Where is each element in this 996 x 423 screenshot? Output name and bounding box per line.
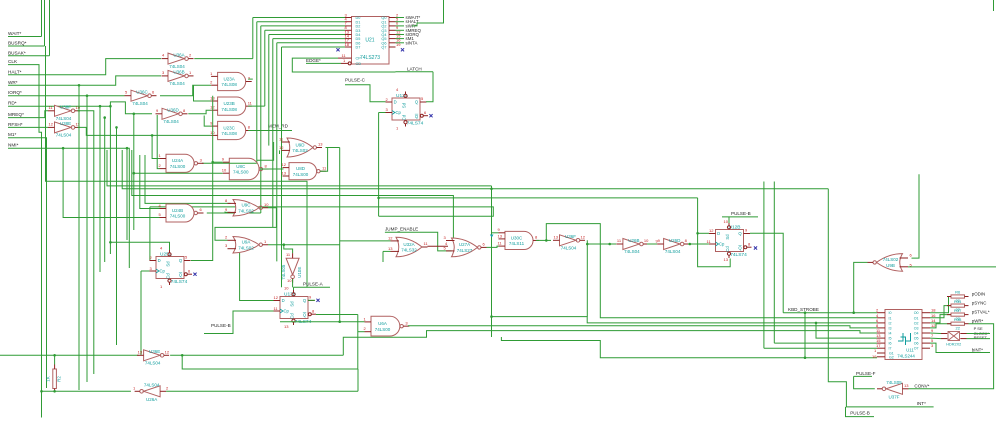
U11 pin A7 [877, 347, 885, 349]
svg-text:R38: R38 [954, 317, 962, 322]
U21 pin 1 CLR [348, 62, 351, 65]
U21 pin D7 [345, 46, 352, 48]
svg-text:Sd: Sd [166, 261, 171, 267]
svg-text:JUMP_ENABLE: JUMP_ENABLE [385, 227, 418, 232]
U21 pin D0 [345, 17, 352, 19]
wire KBD_STROBE [783, 312, 877, 314]
svg-text:EDGE*: EDGE* [306, 58, 321, 63]
svg-text:O1: O1 [914, 316, 919, 320]
svg-text:O2: O2 [914, 321, 919, 325]
wire JUMP_ENABLE [385, 232, 452, 251]
wire [698, 232, 709, 234]
wire vertical x87 [86, 96, 88, 382]
svg-text:74LS74: 74LS74 [407, 121, 424, 127]
NOR gate U9A [233, 237, 259, 254]
wire [764, 347, 877, 349]
inverter U37F [886, 383, 903, 394]
svg-text:74LS04: 74LS04 [163, 119, 179, 124]
wire [408, 326, 877, 328]
no-connect D7 [336, 48, 339, 51]
wire vertical x110 [109, 106, 111, 254]
svg-text:74LS32: 74LS32 [401, 248, 417, 253]
wire [240, 253, 274, 301]
U21 pin D2 [345, 25, 352, 27]
wire [213, 161, 223, 163]
svg-text:74LS04: 74LS04 [145, 361, 161, 366]
svg-text:O5: O5 [914, 337, 919, 341]
wire MEM_RD [248, 130, 292, 132]
U21 pin D6 [345, 42, 352, 44]
svg-text:12: 12 [49, 121, 54, 126]
wire [134, 172, 223, 174]
svg-text:74LS02: 74LS02 [238, 208, 254, 213]
svg-text:10: 10 [222, 168, 227, 173]
AND gate U23C [218, 121, 246, 139]
jumper J1 [948, 332, 960, 341]
wire [340, 240, 391, 242]
svg-text:74LS244: 74LS244 [897, 354, 915, 359]
wire [339, 148, 341, 322]
wire [698, 198, 731, 267]
U11 pin A0 [877, 312, 885, 314]
NOR gate U9C [233, 200, 259, 217]
U21 pin D3 [345, 29, 352, 31]
wire [152, 135, 159, 158]
AND gate U23B [218, 97, 246, 115]
svg-text:U26A: U26A [146, 397, 157, 402]
svg-text:Cd: Cd [166, 273, 171, 279]
wire Q2 [396, 25, 405, 27]
wire bus B [122, 150, 828, 189]
svg-text:74LS08: 74LS08 [221, 107, 237, 112]
U11 schmitt symbol [898, 333, 911, 345]
U13B Qbar pin 8 [308, 313, 311, 316]
U12B Qbar pin 8 [744, 246, 747, 249]
wire [930, 306, 951, 318]
wire BUSRQ* [8, 45, 45, 47]
svg-text:D: D [158, 258, 161, 263]
svg-text:U10E: U10E [297, 267, 302, 278]
svg-text:74LS00: 74LS00 [293, 172, 309, 177]
U21 pin D1 [345, 21, 352, 23]
svg-text:WAIT*: WAIT* [8, 31, 22, 36]
svg-text:U23B: U23B [223, 101, 234, 106]
wire [280, 321, 365, 323]
resistor R6 [951, 295, 965, 298]
NOR gate U9B [877, 254, 903, 272]
svg-text:Q2: Q2 [381, 25, 386, 29]
wire NMI* run [8, 148, 129, 268]
wire vertical x774 [773, 182, 775, 344]
svg-text:18: 18 [345, 42, 350, 47]
svg-text:U21: U21 [365, 38, 374, 44]
wire [316, 314, 358, 316]
svg-text:MREQ*: MREQ* [8, 112, 24, 117]
svg-text:74LS04: 74LS04 [169, 64, 185, 69]
svg-text:O6: O6 [914, 342, 919, 346]
wire [49, 0, 51, 56]
U21 pin D4 [345, 34, 352, 36]
svg-text:U9C: U9C [241, 203, 251, 208]
wire [412, 0, 444, 26]
wire [157, 115, 159, 169]
wire to U24B in2 [63, 148, 159, 217]
wire [141, 270, 150, 272]
wire [383, 250, 391, 252]
svg-text:74LS02: 74LS02 [292, 148, 308, 153]
U21 pin Q5 [389, 38, 396, 40]
U11 pin Y3 [922, 327, 930, 329]
svg-text:1K: 1K [46, 376, 51, 381]
svg-text:Cp: Cp [396, 110, 402, 115]
wire [170, 354, 343, 356]
svg-text:74LS05: 74LS05 [886, 380, 902, 385]
wire U23A out [248, 78, 253, 80]
wire [54, 355, 56, 364]
svg-text:LATCH: LATCH [407, 66, 422, 71]
svg-text:74LS05: 74LS05 [281, 264, 286, 280]
svg-text:I7: I7 [889, 347, 892, 351]
wire [166, 390, 358, 392]
wire [492, 232, 499, 234]
wire [268, 245, 293, 254]
svg-text:13: 13 [724, 257, 729, 262]
svg-text:O4: O4 [914, 332, 919, 336]
wire [774, 342, 877, 344]
svg-text:12: 12 [581, 234, 586, 239]
wire U25A Cp riser [140, 271, 142, 355]
svg-text:74LS04: 74LS04 [132, 101, 148, 106]
wire RD* to U36D [8, 102, 152, 114]
wire [308, 299, 315, 301]
svg-text:BUSAK*: BUSAK* [8, 50, 26, 55]
wire [215, 208, 276, 241]
svg-text:Cp: Cp [160, 269, 166, 274]
U11 pin Y6 [922, 342, 930, 344]
svg-text:U36A: U36A [173, 52, 184, 57]
svg-text:D: D [282, 298, 285, 303]
svg-text:PULSE-B: PULSE-B [731, 211, 751, 216]
wire Q1 [396, 21, 405, 23]
inverter U26B [623, 239, 640, 250]
wire [728, 217, 730, 223]
wire [0, 354, 139, 356]
svg-text:U36C: U36C [136, 90, 148, 95]
svg-text:74LS00: 74LS00 [233, 170, 249, 175]
U11 pin A3 [877, 327, 885, 329]
svg-text:BUSRQ*: BUSRQ* [8, 41, 27, 46]
wire [804, 313, 806, 358]
wire U21 D7 feed [282, 46, 346, 48]
wire [41, 0, 43, 37]
wire U36D out to U23B [188, 110, 211, 114]
svg-text:NMI*: NMI* [8, 143, 19, 148]
svg-text:Cp: Cp [719, 242, 725, 247]
wire U12A cp riser [378, 113, 380, 217]
svg-text:U23A: U23A [223, 76, 234, 81]
svg-text:U36E: U36E [149, 349, 160, 354]
wire [816, 323, 877, 338]
svg-text:I0: I0 [889, 311, 892, 315]
AND gate U30C [505, 231, 533, 249]
resistor R38 [951, 322, 965, 325]
svg-text:KBD_STROBE: KBD_STROBE [788, 307, 819, 312]
U11 pin Y5 [922, 337, 930, 339]
svg-text:74LS08: 74LS08 [221, 82, 237, 87]
wire [586, 244, 588, 317]
wire U24B in1 feed [140, 155, 160, 209]
wire [828, 189, 933, 407]
wire [930, 337, 941, 340]
svg-text:Sd: Sd [402, 102, 407, 108]
svg-text:U8D: U8D [296, 166, 306, 171]
wire vertical x133 [133, 114, 135, 230]
svg-text:PULSE-B: PULSE-B [850, 411, 870, 416]
wire U21 D2 feed [261, 25, 345, 27]
wire U21 D3 feed [265, 29, 345, 31]
wire [292, 279, 294, 287]
wire U21 D1 feed [257, 21, 345, 23]
svg-text:10: 10 [76, 105, 81, 110]
wire [912, 174, 920, 258]
wire Q6 [396, 42, 405, 44]
U11 pin A5 [877, 337, 885, 339]
wire [292, 252, 294, 254]
wire PULSE-B label2 [846, 407, 875, 417]
svg-text:10: 10 [287, 278, 292, 283]
IC U21 74LS273 [352, 17, 390, 65]
wire [42, 390, 131, 392]
resistor R37 [951, 313, 965, 316]
wire [993, 0, 995, 11]
svg-text:10: 10 [644, 238, 649, 243]
svg-text:I6: I6 [889, 342, 892, 346]
wire [343, 331, 877, 356]
wire [909, 388, 990, 390]
NOR gate U27A [452, 238, 478, 257]
U21 pin Q1 [389, 21, 396, 23]
wire LATCH [396, 71, 434, 73]
svg-text:R34: R34 [954, 299, 962, 304]
wire U21 D2 riser [260, 26, 262, 213]
svg-text:R2: R2 [57, 376, 62, 382]
wire [587, 240, 616, 244]
svg-text:HDR2X2: HDR2X2 [946, 342, 961, 346]
svg-text:D2: D2 [356, 25, 361, 29]
wire PULSE-B label [722, 216, 758, 218]
svg-text:pODIN: pODIN [972, 291, 985, 296]
wire PULSE-A [294, 286, 331, 288]
wire U6A in2 riser [357, 315, 359, 370]
wire U32A in2 riser [382, 251, 384, 262]
OR gate U32A [396, 237, 422, 257]
wire U21 D1 riser [256, 22, 258, 164]
svg-text:74LS04: 74LS04 [56, 133, 72, 138]
svg-text:Cp: Cp [284, 309, 290, 314]
svg-text:13: 13 [318, 142, 323, 147]
svg-text:13: 13 [282, 170, 287, 175]
inverter U38E [55, 122, 72, 133]
svg-text:U38E: U38E [60, 121, 71, 126]
svg-text:13: 13 [138, 349, 143, 354]
svg-text:PULSE-B: PULSE-B [211, 323, 231, 328]
wire [320, 148, 328, 172]
wire U38E out to U23C [78, 127, 212, 135]
svg-text:I1: I1 [889, 316, 892, 320]
inverter U26D [664, 239, 681, 250]
wire Q3 [396, 29, 405, 31]
wire U23B out [248, 105, 265, 107]
wire PULSE-F to U37F [854, 376, 875, 388]
svg-text:sINTA: sINTA [406, 40, 418, 45]
svg-text:R37: R37 [954, 308, 962, 313]
svg-text:CONV*: CONV* [914, 384, 929, 389]
U11 gate pins [877, 352, 885, 354]
wire RFSH* to U38E [8, 126, 48, 128]
U11 pin Y1 [922, 317, 930, 319]
inverter U38F [55, 105, 72, 116]
U21 pin Q7 [389, 46, 396, 48]
wire U21 D6 feed [277, 42, 345, 44]
U11 pin Y0 [922, 312, 930, 314]
U21 pin Q2 [389, 25, 396, 27]
svg-text:U24A: U24A [172, 158, 183, 163]
svg-text:13: 13 [388, 246, 393, 251]
inverter U26A [144, 386, 161, 397]
svg-text:U32A: U32A [403, 242, 414, 247]
svg-text:CD: CD [356, 62, 362, 66]
U11 pin Y7 [922, 347, 930, 349]
svg-text:13: 13 [554, 234, 559, 239]
U11 pin A1 [877, 317, 885, 319]
AND gate U23A [218, 72, 246, 90]
flip-flop U13B [280, 297, 308, 319]
inverter U36E [144, 350, 161, 361]
svg-text:U26D: U26D [669, 238, 681, 243]
svg-text:10: 10 [284, 286, 289, 291]
wire [279, 150, 281, 154]
svg-text:13: 13 [498, 233, 503, 238]
svg-text:10: 10 [264, 202, 269, 207]
wire PULSE-C to D [345, 85, 386, 102]
svg-text:bINT*: bINT* [972, 347, 984, 352]
wire U21 D4 riser [268, 35, 270, 146]
wire [326, 147, 340, 149]
svg-text:U27A: U27A [459, 242, 470, 247]
wire vertical x764 [763, 182, 765, 349]
wire Q5 [396, 38, 405, 40]
wire [647, 243, 657, 245]
wire [967, 333, 991, 335]
wire [260, 168, 283, 170]
svg-text:INT*: INT* [917, 401, 926, 406]
U21 pin Q6 [389, 42, 396, 44]
flip-flop U12B [716, 230, 744, 252]
svg-text:13: 13 [284, 324, 289, 329]
svg-text:U23C: U23C [223, 125, 235, 130]
wire [546, 224, 877, 318]
svg-text:I2: I2 [889, 321, 892, 325]
wire IORQ* to U36C [8, 95, 125, 97]
wire vertical x100 [99, 106, 101, 272]
svg-text:10: 10 [724, 219, 729, 224]
U11 pin A2 [877, 322, 885, 324]
svg-text:D7: D7 [356, 46, 361, 50]
svg-text:U30C: U30C [511, 235, 523, 240]
svg-text:74LS04: 74LS04 [144, 383, 160, 388]
svg-text:I3: I3 [889, 326, 892, 330]
svg-text:MEM_RD: MEM_RD [268, 123, 289, 128]
wire [918, 173, 920, 175]
wire vertical x116 [116, 127, 118, 345]
marker arrow [490, 235, 494, 238]
NAND gate U24A [166, 154, 194, 172]
U11 pin Y4 [922, 332, 930, 334]
wire [930, 324, 951, 328]
svg-text:13: 13 [904, 383, 909, 388]
wire WAIT* [8, 36, 42, 38]
svg-text:PULSE-A: PULSE-A [303, 282, 324, 287]
inverter U36A [168, 53, 185, 64]
wire U21 D0 feed [253, 17, 345, 19]
wire EDGE* [306, 62, 341, 64]
U25A Qbar pin 6 [184, 273, 187, 276]
wire U21 D7 riser [281, 47, 283, 287]
svg-text:22: 22 [955, 325, 960, 330]
inverter U36D [162, 108, 179, 119]
svg-text:74LS273: 74LS273 [360, 55, 380, 61]
svg-text:Cd: Cd [402, 114, 407, 120]
wire Q0 [396, 17, 405, 19]
svg-text:74LS04: 74LS04 [665, 249, 681, 254]
wire [292, 58, 395, 72]
svg-text:U37F: U37F [888, 395, 899, 400]
wire bus A [107, 150, 492, 186]
svg-text:U36D: U36D [167, 108, 179, 113]
wire pulse line to U12B [379, 197, 698, 199]
svg-text:U9D: U9D [295, 142, 305, 147]
svg-text:12: 12 [274, 295, 279, 300]
wire [930, 332, 941, 335]
svg-text:Sd: Sd [290, 301, 295, 307]
svg-text:12: 12 [282, 162, 287, 167]
svg-text:74LS00: 74LS00 [170, 164, 186, 169]
resistor R34 [951, 304, 965, 307]
svg-text:pWR*: pWR* [972, 319, 984, 324]
wire [908, 266, 996, 268]
wire bus C [132, 150, 454, 241]
svg-text:U36F: U36F [565, 234, 576, 239]
svg-text:74LS08: 74LS08 [221, 131, 237, 136]
wire U9C in2 feed2 [225, 211, 231, 214]
wire [358, 331, 365, 333]
svg-text:12: 12 [165, 349, 170, 354]
svg-text:M1*: M1* [8, 132, 17, 137]
svg-text:U38F: U38F [60, 105, 71, 110]
svg-text:74LS00: 74LS00 [375, 327, 391, 332]
wire [110, 242, 169, 250]
wire [426, 72, 433, 102]
svg-text:74LS74: 74LS74 [730, 252, 747, 258]
resistor R2 [53, 369, 57, 389]
svg-text:pSTVAL*: pSTVAL* [972, 310, 990, 315]
NAND gate U8D [289, 163, 317, 180]
wire U32A out to U27A [428, 245, 449, 247]
wire PULSE-B to U13B Cp [204, 311, 274, 334]
U21 pin 11 CP [338, 57, 352, 59]
wire bus D [150, 207, 493, 216]
svg-text:Cd: Cd [290, 313, 295, 319]
